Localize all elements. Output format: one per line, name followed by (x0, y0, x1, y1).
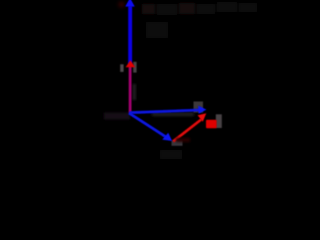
dark blob left of junction (104, 113, 130, 120)
faint title text artifacts (top) (142, 2, 257, 38)
gray artifact block right of red block (216, 114, 222, 128)
vector T: blue arrowhead (top) (125, 0, 135, 7)
gray shadow band under horizontal arrow (152, 113, 194, 116)
horizontal blue vector: shaft (130, 109, 201, 115)
vector component: magenta lower shaft (129, 66, 132, 113)
diagonal blue vector: shaft (128, 112, 167, 139)
gray artifact right of red arrowhead (133, 62, 136, 73)
red block label (mg) (206, 120, 217, 128)
dark red shadow along red vector (176, 138, 190, 142)
gray artifact block above right arrowheads (194, 102, 204, 113)
gray ghost band right of magenta shaft (133, 84, 136, 100)
horizontal blue vector: arrowhead (right) (198, 106, 206, 114)
red closing vector: shaft (172, 118, 202, 142)
gray artifact left of red arrowhead (120, 64, 123, 72)
gray artifact right of diagonal arrowhead (172, 140, 183, 146)
vector T: blue vertical shaft (128, 6, 132, 64)
dark red label dot left of top arrow (119, 2, 124, 7)
faint marks below diagonal arrowhead (160, 150, 182, 159)
red mid arrowhead (pointing up) (126, 60, 136, 67)
red closing vector: arrowhead (up-right) (198, 113, 207, 122)
diagonal blue vector: arrowhead (down-right) (162, 133, 172, 141)
